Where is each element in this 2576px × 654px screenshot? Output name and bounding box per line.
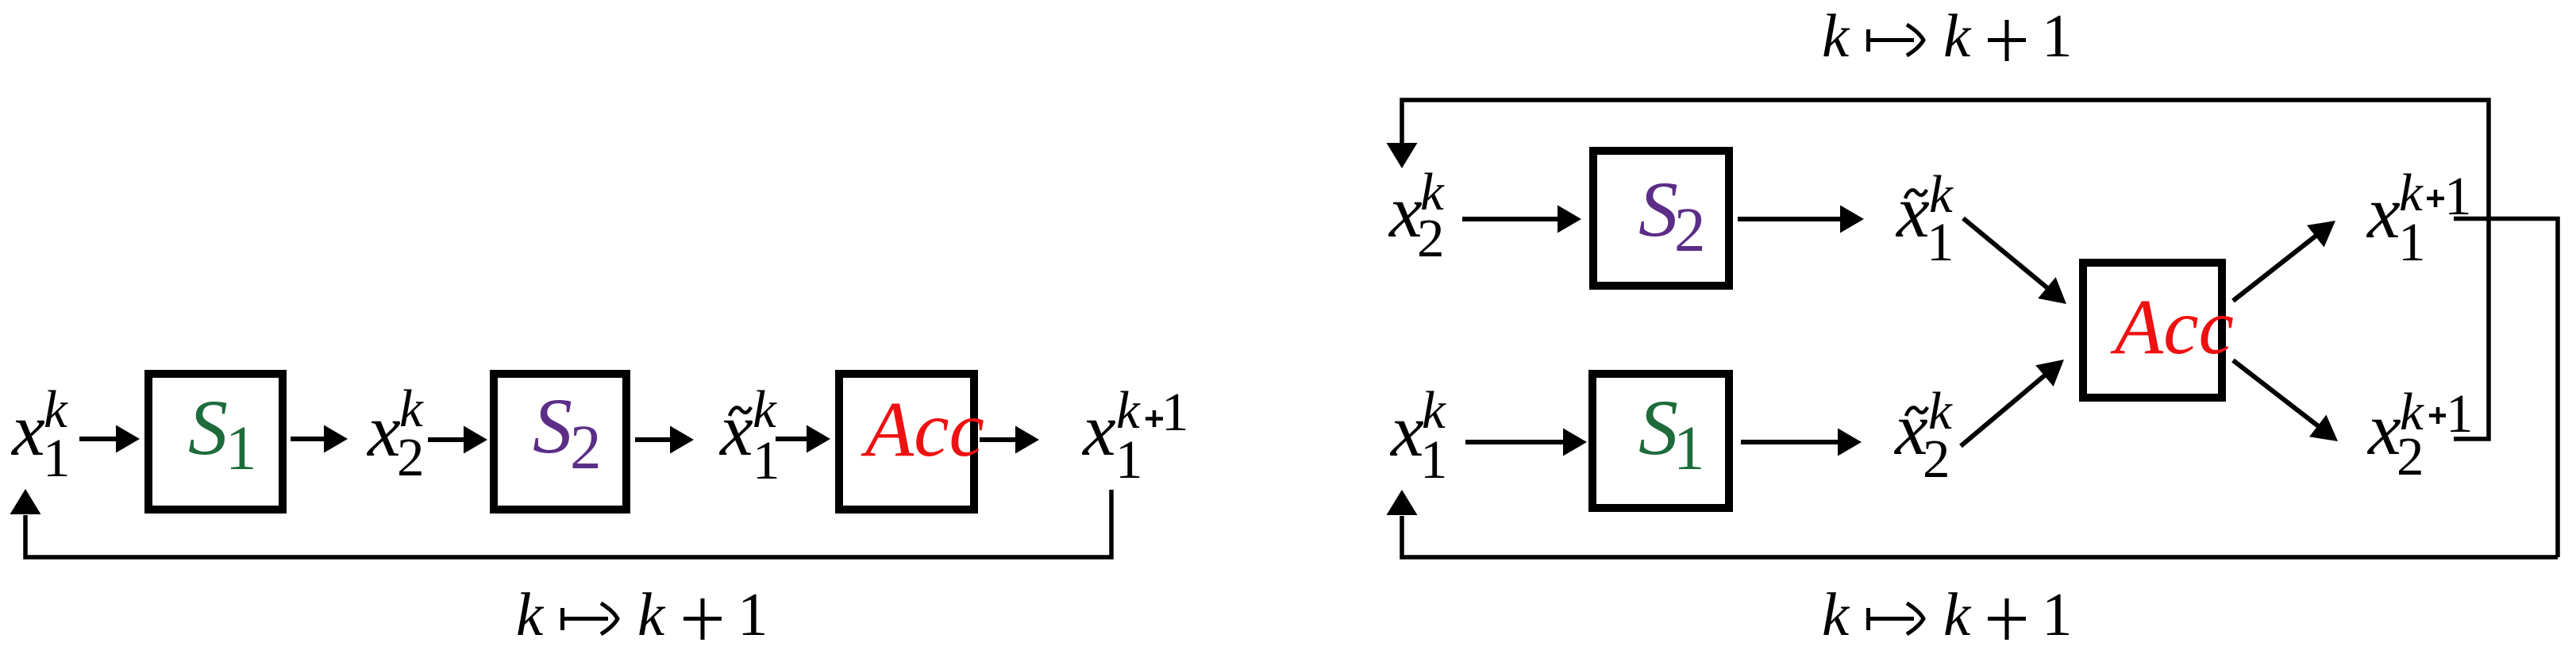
box S1 [148,374,283,510]
wire arrow x1^k to S1 [79,425,140,453]
wire diagonal Acc to x1^{k+1} [2233,221,2335,301]
svg-text:1: 1 [225,414,257,483]
wire arrow x1^k to S1 (right) [1465,429,1587,456]
svg-text:x: x [366,390,401,472]
svg-text:1: 1 [43,428,71,488]
wire feedback loop left diagram [10,489,1112,557]
svg-text:k: k [637,580,666,648]
wire connector x1^{k+1} to right vertical [2454,219,2558,558]
svg-text:1: 1 [2042,2,2073,70]
wire arrow S1 to x~2^k (right) [1741,429,1862,456]
label k maps to k+1 (right top) [1822,2,2073,70]
svg-text:S: S [533,382,572,470]
svg-text:2: 2 [1417,208,1445,268]
svg-text:1: 1 [1673,414,1705,483]
svg-text:k: k [1822,2,1850,70]
wire arrow Acc to x1^{k+1} [980,426,1039,454]
node x1^k (left input) [10,380,71,488]
svg-text:2: 2 [2397,426,2424,487]
node x1^k (right bottom input) [1389,381,1448,490]
svg-text:1: 1 [1161,382,1189,442]
wire top feedback (x2^{k+1} back to x2^k) [1387,100,2489,439]
svg-text:1: 1 [2042,580,2073,648]
node x2^k [366,379,425,487]
node x1^{k+1} (left output) [1081,381,1189,490]
node xtilde1^k (right) [1895,165,1954,272]
svg-text:x: x [10,389,45,471]
svg-text:k: k [1822,580,1850,648]
wire arrow S2 to x~1^k (right) [1738,206,1864,233]
node x2^k (right top input) [1388,163,1445,268]
svg-text:S: S [1638,165,1678,253]
svg-text:x: x [1081,389,1116,471]
svg-text:2: 2 [397,427,425,487]
wire diagonal Acc to x2^{k+1} [2233,360,2338,441]
svg-text:k: k [1943,2,1972,70]
svg-text:Acc: Acc [861,385,984,473]
node x1^{k+1} (right output top) [2366,163,2472,272]
wire arrow S1 to x2^k [291,425,348,453]
node xtilde2^k (right) [1893,382,1953,489]
svg-text:k: k [516,580,545,648]
svg-text:1: 1 [737,580,768,648]
svg-text:Acc: Acc [2110,283,2234,371]
wire bottom feedback (x1^{k+1} back to x1^k right) [1387,490,2559,557]
svg-text:1: 1 [2398,212,2426,272]
wire diagonal x~1^k to Acc [1963,218,2066,304]
wire arrow x2^k to S2 (right) [1462,206,1581,233]
svg-text:x: x [1895,171,1930,253]
svg-text:S: S [188,383,228,471]
wire diagonal x~2^k to Acc [1961,360,2064,446]
svg-text:1: 1 [1927,212,1954,272]
wire arrow x~1^k to Acc [776,425,830,453]
box Acc [839,374,984,510]
svg-text:x: x [718,389,753,471]
svg-text:1: 1 [1115,429,1143,490]
svg-text:S: S [1638,383,1678,471]
node x2^{k+1} (right output bottom) [2366,383,2474,487]
label k maps to k+1 (right bottom) [1822,580,2073,648]
wire arrow S2 to x~1^k [635,426,694,454]
svg-text:k: k [1943,580,1972,648]
box Acc (right) [2083,263,2234,398]
svg-text:2: 2 [1923,429,1950,489]
svg-text:2: 2 [570,414,602,483]
svg-text:1: 1 [2446,383,2474,444]
wire arrow x2^k to S2 [428,426,487,454]
svg-text:2: 2 [1674,196,1706,265]
label k maps to k+1 (left bottom) [516,580,768,648]
node xtilde1^k [718,380,780,490]
box S1 (right) [1592,374,1729,508]
svg-text:x: x [2366,171,2401,254]
box S2 [494,374,626,510]
svg-text:1: 1 [1420,429,1448,490]
box S2 (right) [1593,151,1729,286]
svg-text:x: x [1389,390,1424,472]
